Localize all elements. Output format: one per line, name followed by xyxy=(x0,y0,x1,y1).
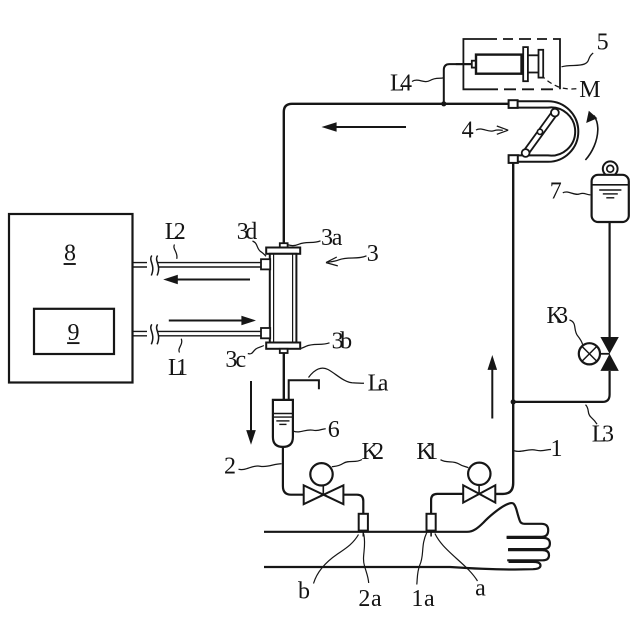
svg-text:L3: L3 xyxy=(592,421,617,447)
svg-text:3: 3 xyxy=(367,241,379,267)
svg-text:K3: K3 xyxy=(546,303,571,329)
svg-text:7: 7 xyxy=(550,179,562,205)
svg-text:5: 5 xyxy=(597,29,609,55)
svg-text:L1: L1 xyxy=(168,355,191,381)
svg-text:9: 9 xyxy=(68,320,80,346)
svg-text:3a: 3a xyxy=(321,225,345,251)
svg-text:1a: 1a xyxy=(411,586,437,612)
svg-text:6: 6 xyxy=(328,417,340,443)
svg-text:K2: K2 xyxy=(361,439,387,465)
svg-text:8: 8 xyxy=(64,240,76,266)
svg-text:3b: 3b xyxy=(332,328,356,354)
svg-text:4: 4 xyxy=(462,118,474,144)
svg-text:M: M xyxy=(579,77,600,103)
svg-text:1: 1 xyxy=(551,436,563,462)
svg-text:3d: 3d xyxy=(237,219,261,245)
svg-text:a: a xyxy=(475,576,486,602)
svg-text:3c: 3c xyxy=(225,347,249,373)
svg-text:La: La xyxy=(368,371,392,397)
svg-text:L2: L2 xyxy=(165,219,189,245)
svg-text:2: 2 xyxy=(224,454,236,480)
svg-text:K1: K1 xyxy=(416,439,441,465)
svg-text:b: b xyxy=(298,578,310,604)
svg-text:L4: L4 xyxy=(390,70,415,96)
svg-text:2a: 2a xyxy=(358,586,384,612)
